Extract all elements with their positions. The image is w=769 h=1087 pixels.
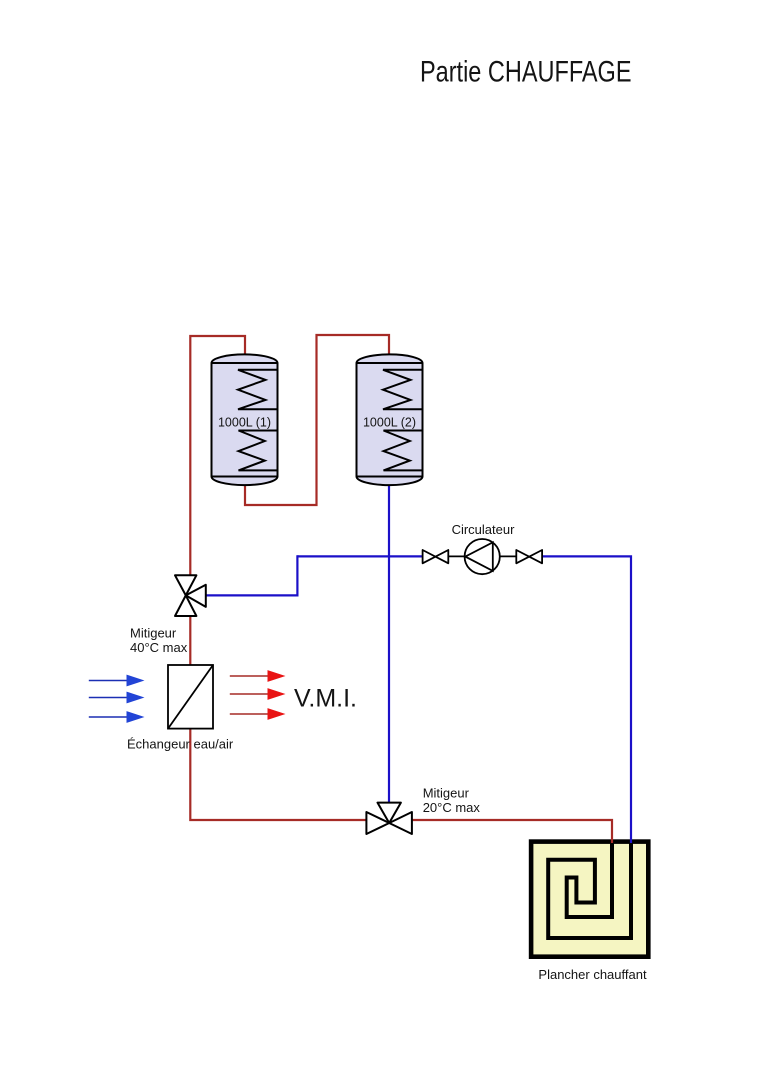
blue air arrow 3 xyxy=(89,711,145,723)
svg-text:20°C max: 20°C max xyxy=(423,800,481,815)
svg-text:Échangeur eau/air: Échangeur eau/air xyxy=(127,737,234,752)
shutoff valve V2 right of pump xyxy=(516,550,542,563)
pump P1 (Circulateur) xyxy=(465,539,500,574)
floor heating panel (Plancher chauffant) background square xyxy=(531,842,648,957)
wire red from mitigeur40 down through exchanger to mitigeur20 xyxy=(190,616,366,820)
three-way mixing valve M1 (Mitigeur 40) xyxy=(175,575,206,616)
tank B2 upper coil xyxy=(383,370,422,410)
svg-text:Mitigeur: Mitigeur xyxy=(423,786,470,801)
blue air arrow 1 xyxy=(89,675,145,687)
tank B1 body xyxy=(212,354,278,485)
three-way mixing valve M2 (Mitigeur 20) xyxy=(366,803,412,834)
wire red from mitigeur40 up and into tank1 top xyxy=(190,336,245,576)
red air arrow 3 xyxy=(230,708,286,720)
wire blue horizontal circulator line left segment xyxy=(297,555,422,557)
shutoff valve V1 left of pump xyxy=(423,550,449,563)
svg-text:V.M.I.: V.M.I. xyxy=(294,685,357,713)
wire blue circulator line right segment and down to floor panel xyxy=(542,556,631,843)
floor heating spiral pipe xyxy=(548,842,631,939)
wire blue down-left leg to mitigeur40 xyxy=(206,555,297,595)
wire red from mitigeur20 to floor panel xyxy=(412,820,612,843)
tank B1 lower coil xyxy=(239,431,277,471)
svg-text:Partie CHAUFFAGE: Partie CHAUFFAGE xyxy=(420,56,632,89)
svg-text:1000L (1): 1000L (1) xyxy=(218,416,271,430)
tank B1 upper coil xyxy=(238,370,277,410)
svg-text:1000L (2): 1000L (2) xyxy=(363,416,416,430)
wire blue from tank2 bottom down to mitigeur20 xyxy=(388,484,390,803)
tank B2 lower coil xyxy=(384,431,422,471)
svg-text:40°C max: 40°C max xyxy=(130,640,188,655)
red air arrow 1 xyxy=(230,670,286,682)
blue air arrow 2 xyxy=(89,692,145,704)
red air arrow 2 xyxy=(230,688,286,700)
wire red from tank1 bottom to tank2 top xyxy=(245,335,389,505)
svg-text:Plancher chauffant: Plancher chauffant xyxy=(538,967,647,982)
svg-text:Mitigeur: Mitigeur xyxy=(130,626,177,641)
svg-text:Circulateur: Circulateur xyxy=(452,522,516,537)
wire black valve1 to pump xyxy=(448,555,464,557)
wire black pump to valve2 xyxy=(500,555,517,557)
tank B2 body xyxy=(357,354,423,485)
heat exchanger (Echangeur eau/air) xyxy=(168,665,213,729)
